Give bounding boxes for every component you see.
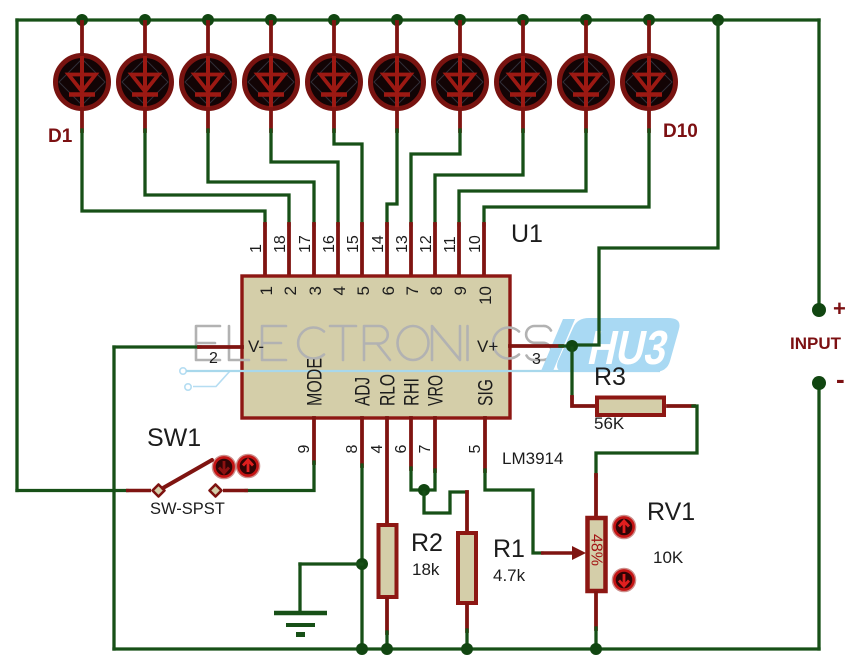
wire V- riser down to bottom bus (112, 347, 115, 649)
wire D8 cathode lead (521, 109, 525, 131)
wire D9 cathode lead (584, 109, 588, 131)
wire RV1 wiper arrow (541, 551, 578, 555)
wire D2 anode lead (143, 22, 147, 53)
wire R1 to ground bus (465, 630, 468, 649)
wire U1 pin 6 stub (385, 224, 389, 277)
wire V+ to junction (560, 344, 572, 347)
node LED D3 anode junction (202, 14, 214, 26)
wire U1 pin 2 (V-) stub (199, 345, 242, 349)
wire D4 cathode lead (269, 109, 273, 131)
svg-text:16: 16 (321, 235, 338, 253)
svg-text:6: 6 (379, 286, 398, 295)
node LED D1 anode junction (76, 14, 88, 26)
terminal - (input negative) (812, 376, 826, 390)
node R2 bus junction (381, 643, 393, 655)
svg-text:18: 18 (272, 235, 289, 253)
wire D10 anode lead (647, 22, 651, 53)
LED D4 (245, 56, 298, 109)
svg-text:R3: R3 (594, 363, 626, 391)
wire R3 left lead (572, 397, 594, 406)
wire RV1 bottom lead (594, 593, 598, 629)
wire R3 right lead (668, 404, 694, 408)
wire R1 bottom lead (465, 605, 469, 631)
node ADJ bus junction (356, 643, 368, 655)
wire D1 cathode to U1 pin 1 (82, 130, 265, 225)
svg-text:18k: 18k (412, 560, 440, 579)
svg-text:RV1: RV1 (647, 498, 695, 526)
wire R3 to RV1 top (596, 406, 697, 476)
wire R2 bottom lead (385, 599, 389, 633)
svg-text:VRO: VRO (425, 375, 448, 406)
wire U1 pin 9 stub (457, 224, 461, 277)
wire SW1 left terminal lead (126, 489, 151, 493)
watermark electronics hub logo (decorative) (180, 318, 680, 390)
wire VRO to junction (425, 470, 435, 490)
wire bottom ground bus (114, 647, 819, 650)
wire U1 pin 8 ADJ stub (360, 418, 364, 466)
switch SW1 lever (163, 460, 212, 488)
svg-text:10: 10 (467, 235, 484, 253)
svg-text:SW1: SW1 (147, 424, 201, 452)
node LED D7 anode junction (454, 14, 466, 26)
wire D4 anode lead (269, 22, 273, 53)
wire D5 cathode lead (332, 109, 336, 131)
svg-text:48%: 48% (588, 534, 605, 566)
svg-text:6: 6 (393, 445, 410, 454)
wire RV1 top lead (594, 475, 598, 517)
svg-text:RLO: RLO (377, 374, 400, 406)
wire RHI to junction (411, 468, 423, 490)
LED D10 (623, 56, 676, 109)
wire MODE to SW1 (246, 462, 314, 491)
svg-text:4.7k: 4.7k (493, 566, 526, 585)
svg-text:15: 15 (345, 235, 362, 253)
wire D1 anode lead (80, 22, 84, 53)
LED D5 (308, 56, 361, 109)
wire U1 pin 7 stub (409, 224, 413, 277)
wire U1 pin 9 MODE stub (312, 418, 316, 463)
svg-text:R2: R2 (411, 529, 443, 557)
node ADJ/ground tee (356, 558, 368, 570)
wire RV1 to ground bus (594, 628, 597, 649)
svg-text:-: - (836, 364, 845, 394)
wire SW1 right terminal lead (223, 489, 248, 493)
node LED D9 anode junction (580, 14, 592, 26)
wire D7 cathode to U1 pin 7 (411, 130, 460, 225)
wire U1 pin 5 SIG stub (483, 418, 487, 471)
wire U1 pin 5 stub (360, 224, 364, 277)
wire U1 pin 6 RHI stub (409, 418, 413, 469)
svg-text:7: 7 (417, 445, 434, 454)
svg-text:13: 13 (394, 235, 411, 253)
wire U1 pin 2 stub (287, 224, 291, 277)
svg-text:8: 8 (427, 286, 446, 295)
svg-text:ADJ: ADJ (352, 377, 375, 406)
wire SIG to RV1 wiper (485, 470, 542, 553)
wire D3 cathode to U1 pin 3 (208, 130, 314, 225)
svg-text:3: 3 (532, 351, 541, 368)
node R1 bus junction (461, 643, 473, 655)
wire D2 cathode to U1 pin 2 (145, 130, 289, 225)
wire ground stem (298, 564, 301, 610)
terminal + (input positive) (812, 303, 826, 317)
wire D6 cathode to U1 pin 6 (387, 130, 397, 225)
wire D8 cathode to U1 pin 8 (435, 130, 523, 225)
wire D6 anode lead (395, 22, 399, 53)
wire D7 anode lead (458, 22, 462, 53)
svg-text:9: 9 (451, 286, 470, 295)
svg-text:2: 2 (209, 350, 218, 367)
svg-text:2: 2 (281, 286, 300, 295)
node LED D10 anode junction (643, 14, 655, 26)
wire ground tee branch (300, 562, 362, 565)
wire D2 cathode lead (143, 109, 147, 131)
wire R1 top lead (465, 492, 469, 532)
svg-text:10: 10 (476, 286, 495, 305)
switch SW1 right terminal (210, 485, 222, 497)
wire R2 to ground bus (385, 632, 388, 649)
SW1 toggle button up (237, 455, 259, 477)
wire D3 anode lead (206, 22, 210, 53)
svg-text:12: 12 (418, 235, 435, 253)
wire U1 pin 4 stub (336, 224, 340, 277)
svg-text:1: 1 (257, 286, 276, 295)
node LED D8 anode junction (517, 14, 529, 26)
svg-text:R1: R1 (493, 535, 525, 563)
potentiometer RV1 (588, 518, 606, 591)
wire junction jog to R1 (424, 492, 467, 513)
svg-text:1: 1 (248, 244, 265, 253)
LED D9 (560, 56, 613, 109)
wire D3 cathode lead (206, 109, 210, 131)
svg-text:INPUT: INPUT (790, 334, 842, 353)
resistor R1 (458, 533, 476, 603)
RV1 down button (613, 569, 635, 591)
SW1 toggle button down (213, 456, 235, 478)
wire U1 pin 4 RLO to R2 top (385, 418, 389, 524)
wire V- net from left riser (114, 345, 200, 348)
wire D8 anode lead (521, 22, 525, 53)
LED D8 (497, 56, 550, 109)
node RHI/VRO junction (418, 484, 430, 496)
wire U1 pin 7 VRO stub (433, 418, 437, 471)
svg-text:10K: 10K (653, 548, 684, 567)
wire U1 pin 3 stub (312, 224, 316, 277)
LED D1 (56, 56, 109, 109)
node LED D2 anode junction (139, 14, 151, 26)
svg-text:D1: D1 (48, 126, 73, 147)
wire D10 cathode lead (647, 109, 651, 131)
LED D6 (371, 56, 424, 109)
svg-text:4: 4 (330, 286, 349, 295)
svg-text:17: 17 (297, 235, 314, 253)
resistor R3 (597, 398, 664, 416)
wire U1 pin 3 (V+) stub (510, 344, 562, 348)
svg-text:14: 14 (370, 235, 387, 253)
svg-text:LM3914: LM3914 (502, 449, 563, 468)
wire left border to SW1 (17, 489, 127, 492)
resistor R2 (379, 525, 397, 597)
svg-text:V+: V+ (477, 337, 498, 356)
wire D10 cathode to U1 pin 10 (484, 130, 649, 225)
LED D2 (119, 56, 172, 109)
svg-text:7: 7 (403, 286, 422, 295)
node RV1 bus junction (590, 643, 602, 655)
wire D7 cathode lead (458, 109, 462, 131)
wire top supply bus (17, 18, 819, 21)
wire left border (top bus to SW1) (15, 20, 18, 491)
svg-text:SW-SPST: SW-SPST (150, 500, 225, 518)
svg-text:U1: U1 (511, 220, 543, 248)
node LED D5 anode junction (328, 14, 340, 26)
ground symbol (274, 613, 327, 637)
svg-text:4: 4 (369, 445, 386, 454)
svg-text:9: 9 (296, 445, 313, 454)
svg-text:56K: 56K (594, 414, 625, 433)
wire D1 cathode lead (80, 109, 84, 131)
node V+ junction (566, 340, 578, 352)
wire U1 pin 8 stub (433, 224, 437, 277)
LED D7 (434, 56, 487, 109)
wire - terminal to bottom bus (817, 390, 820, 649)
LED D3 (182, 56, 235, 109)
svg-text:+: + (833, 296, 846, 321)
svg-text:3: 3 (306, 286, 325, 295)
wire right border to + terminal (817, 20, 820, 303)
op-amp U1 LM3914 IC body (242, 276, 510, 418)
svg-text:RHI: RHI (401, 378, 424, 406)
wire D5 anode lead (332, 22, 336, 53)
svg-text:D10: D10 (663, 121, 698, 142)
svg-text:MODE: MODE (304, 358, 327, 406)
svg-text:11: 11 (442, 236, 459, 253)
wire top bus branch down to V+ node (574, 22, 718, 345)
wire D6 cathode lead (395, 109, 399, 131)
svg-text:8: 8 (344, 445, 361, 454)
wire D9 anode lead (584, 22, 588, 53)
wire V+ node down to R3 (570, 348, 573, 398)
wire D4 cathode to U1 pin 4 (271, 130, 338, 225)
wire U1 pin 1 stub (263, 224, 267, 277)
svg-text:V-: V- (248, 337, 264, 356)
svg-text:5: 5 (354, 286, 373, 295)
svg-text:5: 5 (467, 445, 484, 454)
wire ADJ down to ground bus (360, 465, 363, 649)
wire U1 pin 10 stub (482, 224, 486, 277)
RV1 up button (613, 516, 635, 538)
svg-text:SIG: SIG (475, 379, 498, 406)
node LED D4 anode junction (265, 14, 277, 26)
wire D5 cathode to U1 pin 5 (334, 130, 362, 225)
node LED D6 anode junction (391, 14, 403, 26)
wire D9 cathode to U1 pin 9 (459, 130, 586, 225)
node top bus junction to V+ branch (712, 14, 724, 26)
switch SW1 left terminal (153, 485, 165, 497)
